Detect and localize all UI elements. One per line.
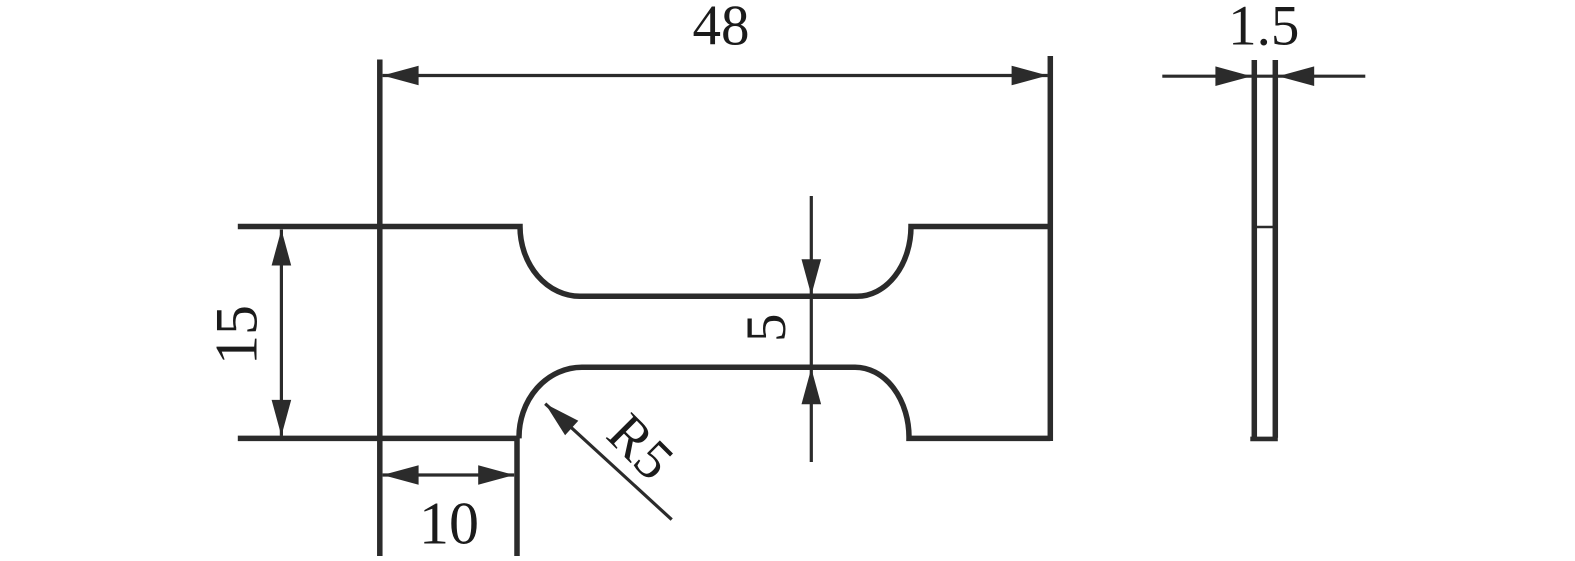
side view bottom edge — [1250, 437, 1278, 442]
side view right edge — [1273, 60, 1279, 438]
arrowhead 1.5 left (pointing right) — [1215, 66, 1251, 86]
dimension line 15 — [280, 230, 283, 436]
dimension line 5 middle segment — [810, 296, 813, 367]
side view tick at grip level — [1254, 226, 1275, 229]
dimension line 10 — [383, 473, 515, 476]
specimen top outline (front view, with left extension) — [238, 227, 1051, 297]
arrowhead 10 left — [383, 465, 419, 485]
dimension line 5 upper segment — [810, 196, 813, 294]
arrowhead 10 right — [478, 465, 514, 485]
dimension line 5 lower segment — [810, 370, 813, 462]
svg-text:5: 5 — [735, 314, 798, 343]
arrowhead 5 top (pointing down) — [802, 259, 822, 295]
leader line R5 — [545, 404, 672, 520]
arrowhead 15 bottom — [272, 400, 292, 436]
arrowhead 48 left — [383, 66, 419, 86]
arrowhead 1.5 right (pointing left) — [1278, 66, 1314, 86]
arrowhead 5 bottom (pointing up) — [802, 368, 822, 404]
dimension line 48 — [383, 74, 1048, 77]
svg-text:10: 10 — [419, 491, 479, 557]
arrowhead 48 right — [1012, 66, 1048, 86]
specimen bottom outline (front view, with left extension) — [238, 367, 1051, 438]
svg-text:1.5: 1.5 — [1228, 0, 1299, 58]
side view left edge — [1252, 60, 1258, 438]
right edge / extension line (48 dim) — [1048, 56, 1054, 441]
arrowhead 15 top — [272, 230, 292, 266]
extension line for 10 dim — [514, 438, 520, 557]
svg-text:48: 48 — [693, 0, 750, 58]
left edge / extension line (48 and 10 dims) — [377, 60, 383, 557]
dimension line 1.5 — [1162, 75, 1365, 78]
svg-text:15: 15 — [203, 305, 269, 365]
arrowhead R5 (pointing up-left) — [545, 404, 578, 436]
